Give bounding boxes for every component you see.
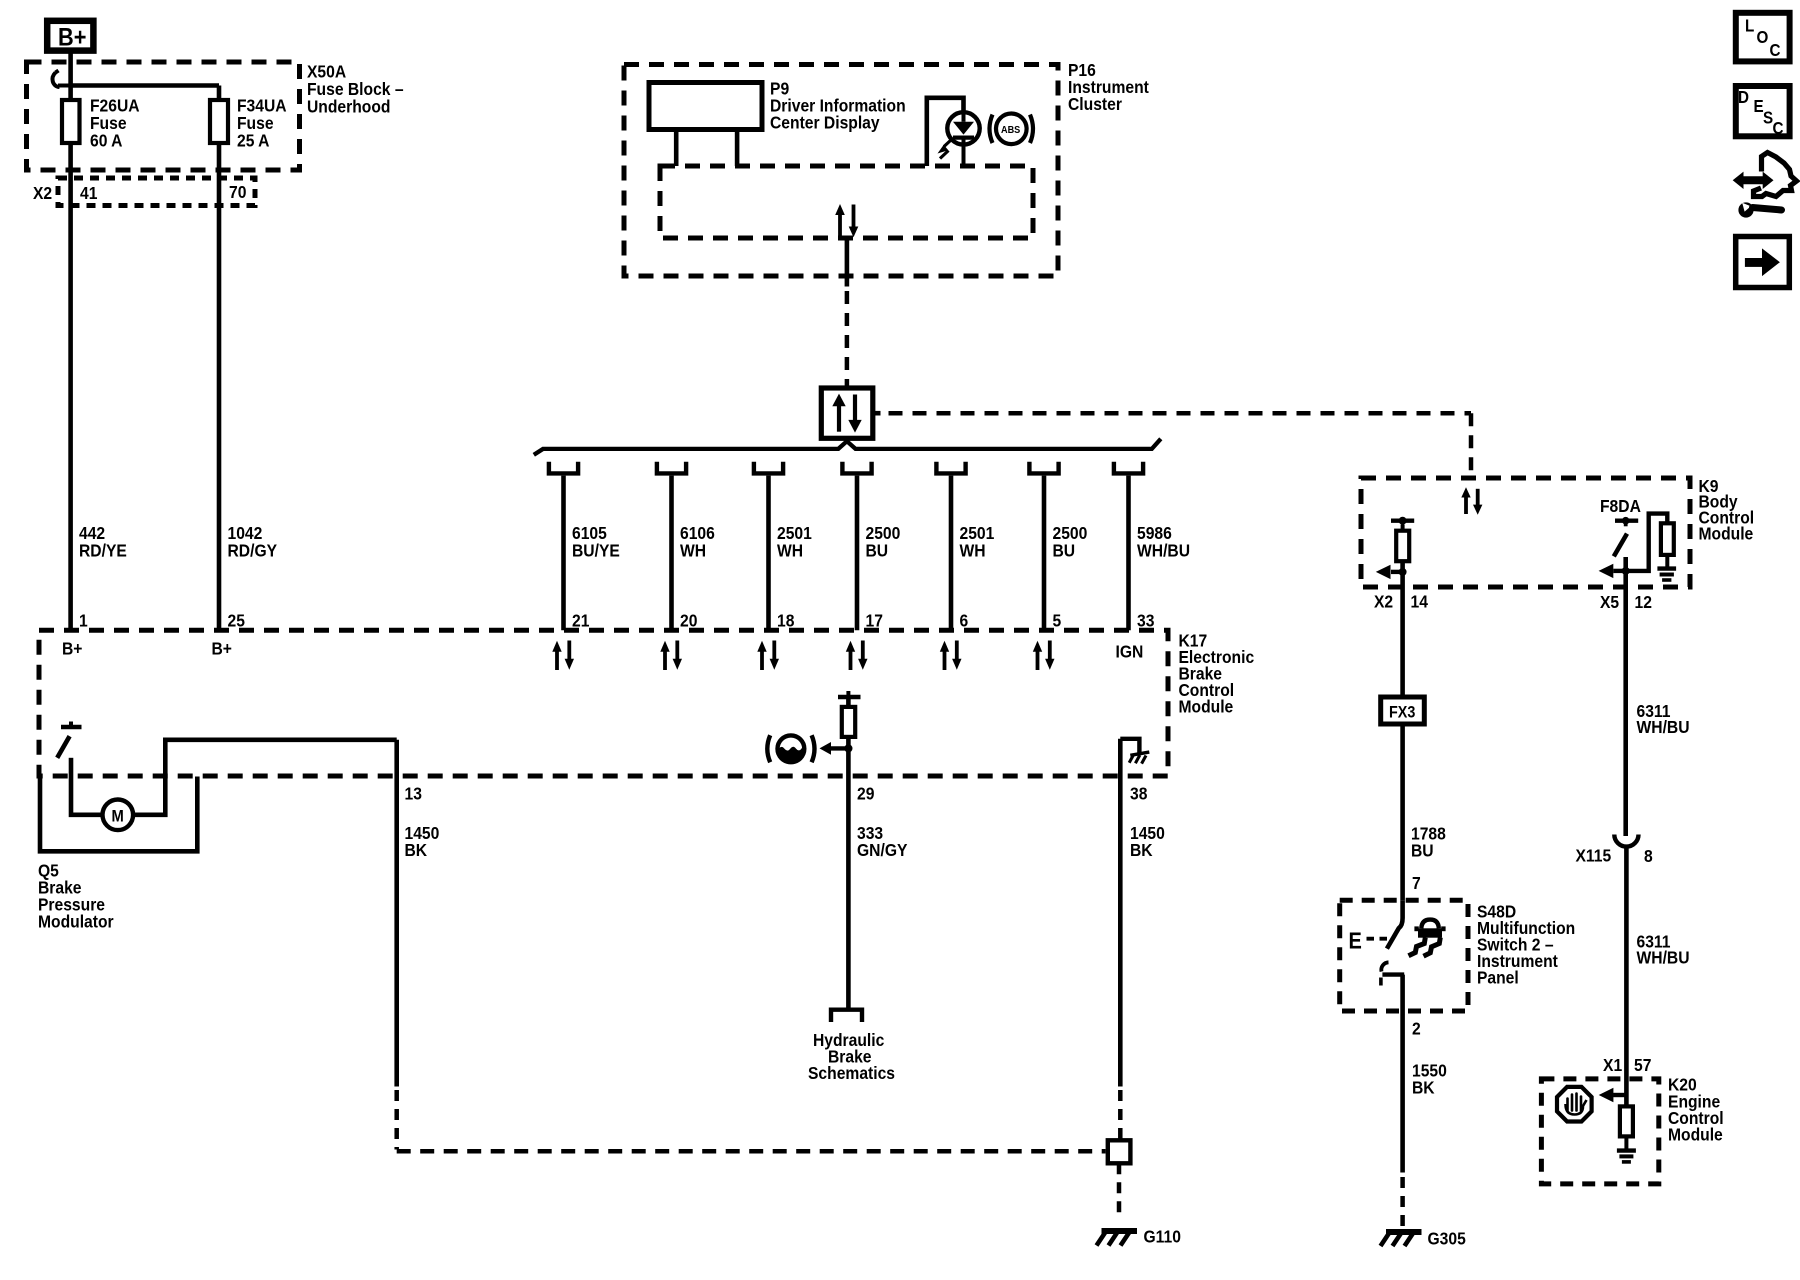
wire P9 right leg xyxy=(735,130,740,167)
wire serial data drop solid xyxy=(845,239,850,287)
wire 1450 BK left dashed xyxy=(394,1090,399,1150)
wire label 6311 WH/BU lower xyxy=(1637,931,1690,967)
svg-text:C: C xyxy=(1770,41,1781,60)
svg-text:F8DA: F8DA xyxy=(1600,496,1641,516)
svg-text:M: M xyxy=(112,808,124,826)
wire 442 RD/YE from B+ through fuse F26UA to pin 1 xyxy=(68,52,73,631)
wire label 1550 BK xyxy=(1412,1060,1447,1097)
indicator lamp circuit wires xyxy=(927,98,964,166)
harness repair icon wrench xyxy=(1738,202,1781,217)
connector terminal pin18 xyxy=(754,462,783,474)
fuse block bus hook xyxy=(53,71,71,88)
wire motor return to pin 13 xyxy=(133,740,397,815)
wire 1788 BU xyxy=(1400,724,1405,900)
svg-text:WH/BU: WH/BU xyxy=(1137,540,1190,560)
EBCM K17 dashed box xyxy=(39,630,1168,776)
ground G110 xyxy=(1097,1226,1181,1246)
svg-text:X115: X115 xyxy=(1576,845,1612,865)
svg-text:ABS: ABS xyxy=(1001,124,1021,136)
serial data arrows in cluster xyxy=(835,204,858,237)
harness repair icon double arrow xyxy=(1733,172,1774,189)
svg-text:B+: B+ xyxy=(212,638,233,658)
pump relay switch in K17 xyxy=(57,722,81,777)
splice box to G110 xyxy=(1108,1140,1131,1163)
svg-text:5: 5 xyxy=(1053,610,1062,630)
wire 333 GN/GY from K17 internal driver xyxy=(846,697,851,1008)
pin numbers top of K17 xyxy=(572,610,1154,630)
connector X2 of fuse block xyxy=(33,178,255,206)
connector terminal pin6 xyxy=(936,462,965,474)
wire dashed to G110 xyxy=(1117,1163,1122,1216)
svg-text:L: L xyxy=(1745,17,1754,36)
wire label 442 RD/YE xyxy=(79,523,127,561)
wire 1550 BK dashed xyxy=(1400,1177,1405,1227)
svg-text:14: 14 xyxy=(1411,591,1429,611)
svg-text:BU: BU xyxy=(1411,840,1434,860)
label K9 xyxy=(1699,476,1755,544)
wire 2501 WH a xyxy=(766,476,771,631)
svg-text:BK: BK xyxy=(405,840,428,860)
svg-text:G305: G305 xyxy=(1428,1228,1466,1248)
serial data gateway box xyxy=(821,388,873,438)
svg-text:GN/GY: GN/GY xyxy=(857,840,907,860)
connector terminal pin33 xyxy=(1114,462,1143,474)
arrow continuation left K9 pin12 xyxy=(1599,564,1626,578)
serial data down arrow xyxy=(848,395,861,433)
instrument cluster P16 dashed box xyxy=(624,65,1058,277)
stop lamp hand icon xyxy=(1557,1087,1592,1122)
serial arrows pin6 xyxy=(940,641,962,671)
svg-text:WH/BU: WH/BU xyxy=(1637,717,1690,737)
connector terminal pin21 xyxy=(549,462,578,474)
svg-text:WH: WH xyxy=(777,540,803,560)
svg-text:O: O xyxy=(1757,28,1769,47)
wire label 1450 BK right xyxy=(1130,823,1165,860)
junction node pin12 xyxy=(1622,567,1630,575)
svg-text:41: 41 xyxy=(80,183,97,203)
svg-text:1: 1 xyxy=(79,610,88,630)
wire 6105 BU/YE xyxy=(561,476,566,631)
svg-text:G110: G110 xyxy=(1144,1226,1181,1246)
in-line connector X115 xyxy=(1614,835,1638,847)
wire dashed run to splice xyxy=(397,1149,1106,1154)
wire motor feed left xyxy=(71,776,103,815)
wire 1450 BK right dashed xyxy=(1118,1090,1123,1139)
svg-text:21: 21 xyxy=(572,610,589,630)
traction control icon xyxy=(1409,920,1446,957)
brake warning indicator lamp xyxy=(767,735,814,762)
forward arrow box xyxy=(1736,237,1790,288)
svg-text:13: 13 xyxy=(405,783,422,803)
wire P9 left leg xyxy=(674,130,679,167)
wire serial data drop dashed xyxy=(845,291,850,386)
svg-text:RD/GY: RD/GY xyxy=(228,540,278,560)
wire branch to fuse F34UA xyxy=(71,86,219,632)
ground in K20 xyxy=(1617,1151,1636,1162)
wire 2500 BU b xyxy=(1042,476,1047,631)
svg-text:BU/YE: BU/YE xyxy=(572,540,620,560)
svg-text:7: 7 xyxy=(1412,873,1421,893)
wire label 1042 RD/GY xyxy=(228,523,278,561)
svg-text:Module: Module xyxy=(1699,523,1754,543)
DESC legend box xyxy=(1736,86,1790,138)
svg-text:B+: B+ xyxy=(62,638,83,658)
wire 1450 BK right solid xyxy=(1118,739,1123,1087)
svg-text:C: C xyxy=(1773,119,1784,138)
svg-text:60 A: 60 A xyxy=(90,130,122,150)
svg-text:WH: WH xyxy=(680,540,706,560)
svg-text:Module: Module xyxy=(1179,696,1234,716)
svg-text:BU: BU xyxy=(1053,540,1076,560)
wire 6311 WH/BU lower xyxy=(1624,847,1629,1107)
serial arrows pin5 xyxy=(1033,641,1055,671)
svg-text:X2: X2 xyxy=(33,183,52,203)
wire 2500 BU a xyxy=(855,476,860,631)
svg-text:E: E xyxy=(1349,927,1362,954)
svg-text:8: 8 xyxy=(1644,846,1653,866)
resistor in K17 above pin 29 xyxy=(838,691,861,737)
wire label 6311 WH/BU upper xyxy=(1637,701,1690,737)
svg-text:Modulator: Modulator xyxy=(38,911,114,931)
fuse F34UA xyxy=(210,100,228,143)
fuse F26UA xyxy=(62,100,80,143)
svg-text:Module: Module xyxy=(1668,1124,1723,1144)
svg-text:IGN: IGN xyxy=(1116,641,1144,661)
svg-text:70: 70 xyxy=(229,182,246,202)
brake pressure modulator Q5 outline xyxy=(40,777,197,852)
svg-text:Underhood: Underhood xyxy=(307,96,390,116)
svg-text:Panel: Panel xyxy=(1477,967,1519,987)
wire 5986 WH/BU xyxy=(1126,476,1131,631)
off-page connector to hydraulic brake schematics xyxy=(831,1010,862,1022)
resistor in K20 xyxy=(1620,1106,1633,1148)
svg-text:20: 20 xyxy=(680,610,697,630)
wire serial data dashed drop to K9 xyxy=(1469,413,1474,477)
label Q5 xyxy=(38,860,114,931)
ground G305 xyxy=(1381,1228,1466,1248)
svg-text:B+: B+ xyxy=(58,23,86,51)
serial arrows pin21 xyxy=(552,641,574,671)
label X50A xyxy=(307,61,404,116)
serial arrows pin17 xyxy=(846,641,868,671)
svg-text:WH/BU: WH/BU xyxy=(1637,947,1690,967)
LOC legend box xyxy=(1736,13,1790,62)
junction node at pin 29 branch xyxy=(844,744,852,752)
switch F8DA in K9 xyxy=(1614,517,1638,557)
wire 1550 BK xyxy=(1400,975,1405,1173)
svg-text:X2: X2 xyxy=(1374,591,1393,611)
label K20 xyxy=(1668,1074,1724,1144)
connector terminal pin17 xyxy=(842,462,871,474)
label P16 xyxy=(1068,60,1149,114)
connector terminal pin5 xyxy=(1029,462,1058,474)
ECM K20 dashed box xyxy=(1541,1079,1658,1184)
connector terminal pin20 xyxy=(657,462,686,474)
LED indicator lamp xyxy=(938,112,980,166)
wire labels serial bus xyxy=(572,523,1190,561)
serial data up arrow xyxy=(832,394,845,432)
svg-text:RD/YE: RD/YE xyxy=(79,540,127,560)
svg-text:12: 12 xyxy=(1635,592,1652,612)
label S48D xyxy=(1477,901,1575,987)
in-line fuse FX3 xyxy=(1381,697,1425,724)
svg-text:57: 57 xyxy=(1634,1055,1651,1075)
internal chassis ground at pin 38 xyxy=(1120,739,1149,764)
dashed link E to switch xyxy=(1367,937,1388,941)
multifunction switch S48D dashed box xyxy=(1340,900,1468,1011)
svg-text:38: 38 xyxy=(1130,783,1147,803)
svg-text:WH: WH xyxy=(960,540,986,560)
serial arrows pin20 xyxy=(660,641,682,671)
wire pin 14 feed xyxy=(1400,561,1405,697)
svg-text:2: 2 xyxy=(1412,1018,1421,1038)
label K17 xyxy=(1179,630,1255,716)
svg-text:18: 18 xyxy=(777,610,794,630)
wire label 1788 BU xyxy=(1411,823,1446,860)
svg-text:D: D xyxy=(1738,88,1749,107)
wire label 333 GN/GY xyxy=(857,823,907,860)
wire label 1450 BK left xyxy=(405,823,440,860)
pull-up resistor in K9 xyxy=(1626,514,1674,571)
wire serial stub right xyxy=(873,411,881,416)
svg-text:6: 6 xyxy=(960,610,969,630)
svg-text:X1: X1 xyxy=(1603,1055,1622,1075)
battery feed B+ xyxy=(47,21,93,51)
svg-text:25 A: 25 A xyxy=(237,130,269,150)
svg-text:29: 29 xyxy=(857,783,874,803)
svg-text:33: 33 xyxy=(1137,610,1154,630)
arrow to brake warning indicator xyxy=(820,742,849,755)
svg-text:BK: BK xyxy=(1130,840,1153,860)
svg-text:Center Display: Center Display xyxy=(770,112,880,132)
arrow continuation left K20 xyxy=(1599,1088,1627,1102)
wire 2501 WH b xyxy=(949,476,954,631)
BCM K9 dashed box xyxy=(1361,478,1690,587)
inner cluster circuit dashed box xyxy=(660,166,1033,238)
svg-text:BK: BK xyxy=(1412,1077,1435,1097)
svg-text:Schematics: Schematics xyxy=(808,1063,895,1083)
svg-text:X5: X5 xyxy=(1600,592,1619,612)
serial arrows pin18 xyxy=(757,641,779,671)
display P9 xyxy=(649,83,762,130)
ABS indicator xyxy=(990,114,1034,145)
harness repair icon outline xyxy=(1754,153,1797,197)
wire 6106 WH xyxy=(669,476,674,631)
svg-text:25: 25 xyxy=(228,610,245,630)
svg-text:Cluster: Cluster xyxy=(1068,94,1122,114)
ground in K9 xyxy=(1657,569,1676,580)
fuse element in K9 xyxy=(1391,517,1414,562)
serial arrows in K9 xyxy=(1461,487,1482,515)
pump motor M xyxy=(103,800,134,831)
wire 1450 BK left solid xyxy=(394,740,399,1087)
svg-text:BU: BU xyxy=(866,540,889,560)
arrow continuation left K9 pin14 xyxy=(1376,565,1407,579)
fuse block X50A dashed box xyxy=(27,62,300,170)
switch blade S48D xyxy=(1387,900,1403,948)
wire serial data dashed to BCM xyxy=(889,411,1472,416)
svg-text:17: 17 xyxy=(866,610,883,630)
wire 6311 from K9 pin 12 xyxy=(1623,557,1628,836)
lower contact S48D xyxy=(1381,962,1404,985)
serial data bus line xyxy=(534,439,1161,455)
svg-text:FX3: FX3 xyxy=(1389,704,1416,722)
